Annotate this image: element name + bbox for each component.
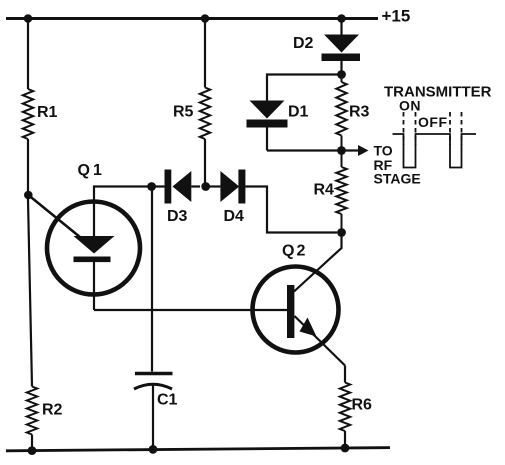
junction dot Q1 gate on left rail xyxy=(24,191,33,200)
wire D1 cathode to R3/R4 junction xyxy=(267,149,342,151)
diode D2 xyxy=(293,19,360,75)
svg-text:ON: ON xyxy=(399,98,421,114)
svg-text:Q2: Q2 xyxy=(282,243,307,260)
svg-text:R5: R5 xyxy=(173,104,194,121)
resistor R3 xyxy=(336,75,369,151)
node TO RF STAGE label xyxy=(374,143,421,187)
wire left rail upper (top rail to R1) xyxy=(27,19,29,90)
svg-text:OFF: OFF xyxy=(418,114,448,130)
resistor R6 xyxy=(340,383,372,449)
junction dot R3/R4/D1/output node xyxy=(337,146,346,155)
capacitor C1 xyxy=(134,187,178,450)
wire Q1 anode top lead and to D3 xyxy=(94,187,165,237)
wire Q2 collector xyxy=(294,233,342,292)
resistor R1 xyxy=(23,89,58,139)
svg-text:D1: D1 xyxy=(288,104,309,121)
junction dot top rail / R5 xyxy=(201,14,210,23)
wire R2 bottom to ground rail xyxy=(31,435,33,451)
svg-text:R1: R1 xyxy=(37,104,58,121)
junction dot R4 bottom / D4 branch / Q2 collector xyxy=(337,228,346,237)
junction dot below D2 (R3 top / D1 branch) xyxy=(337,70,346,79)
svg-text:C1: C1 xyxy=(157,392,178,409)
svg-text:R4: R4 xyxy=(314,182,335,199)
svg-text:R2: R2 xyxy=(42,402,63,419)
wire waveform pulse trace xyxy=(393,134,477,168)
wire waveform dashed timing lines xyxy=(404,112,462,145)
junction dot ground/R2 xyxy=(28,446,37,455)
wire Q1 gate from left rail xyxy=(28,195,91,246)
wire Q2 emitter with arrow xyxy=(295,316,346,383)
node +15 label xyxy=(382,7,411,26)
wire D4 cathode to R4 bottom junction xyxy=(245,187,337,233)
transistor Q1 (SCR) xyxy=(47,162,140,310)
wire left rail middle (R1 to gate junction and down to R2) xyxy=(28,139,32,387)
svg-text:D2: D2 xyxy=(293,35,314,52)
junction dot ground/C1 xyxy=(149,445,158,454)
wire R5 top lead from rail xyxy=(204,19,206,88)
wire Q1 cathode to Q2 base xyxy=(94,309,288,311)
resistor R5 xyxy=(173,88,210,140)
svg-text:STAGE: STAGE xyxy=(374,171,421,187)
junction dot ground/R6 xyxy=(341,444,350,453)
diode D3 xyxy=(165,170,201,226)
svg-text:D4: D4 xyxy=(224,208,245,225)
resistor R2 xyxy=(27,387,63,435)
diode D1 xyxy=(247,101,309,151)
transistor Q2 xyxy=(253,243,339,353)
wire top +15 supply rail xyxy=(6,17,378,20)
diode D4 xyxy=(206,170,246,226)
node TRANSMITTER waveform labels xyxy=(384,84,492,131)
junction dot D3/D4 midpoint with R5 xyxy=(201,182,210,191)
junction dot top rail / D2 xyxy=(337,14,346,23)
wire output arrow to RF stage xyxy=(342,145,369,156)
resistor R4 xyxy=(314,151,347,233)
svg-text:D3: D3 xyxy=(167,208,188,225)
junction dot D3 anode / C1 branch xyxy=(147,182,156,191)
svg-text:Q1: Q1 xyxy=(78,162,105,179)
wire from D2 cathode node left to D1 anode xyxy=(267,75,342,101)
svg-text:R3: R3 xyxy=(349,104,370,121)
svg-text:R6: R6 xyxy=(352,397,373,414)
junction dot top rail / left rail xyxy=(24,14,33,23)
wire R5 bottom lead to D3/D4 junction xyxy=(204,139,206,187)
wire bottom ground rail xyxy=(6,448,390,451)
svg-text:+15: +15 xyxy=(382,7,411,26)
